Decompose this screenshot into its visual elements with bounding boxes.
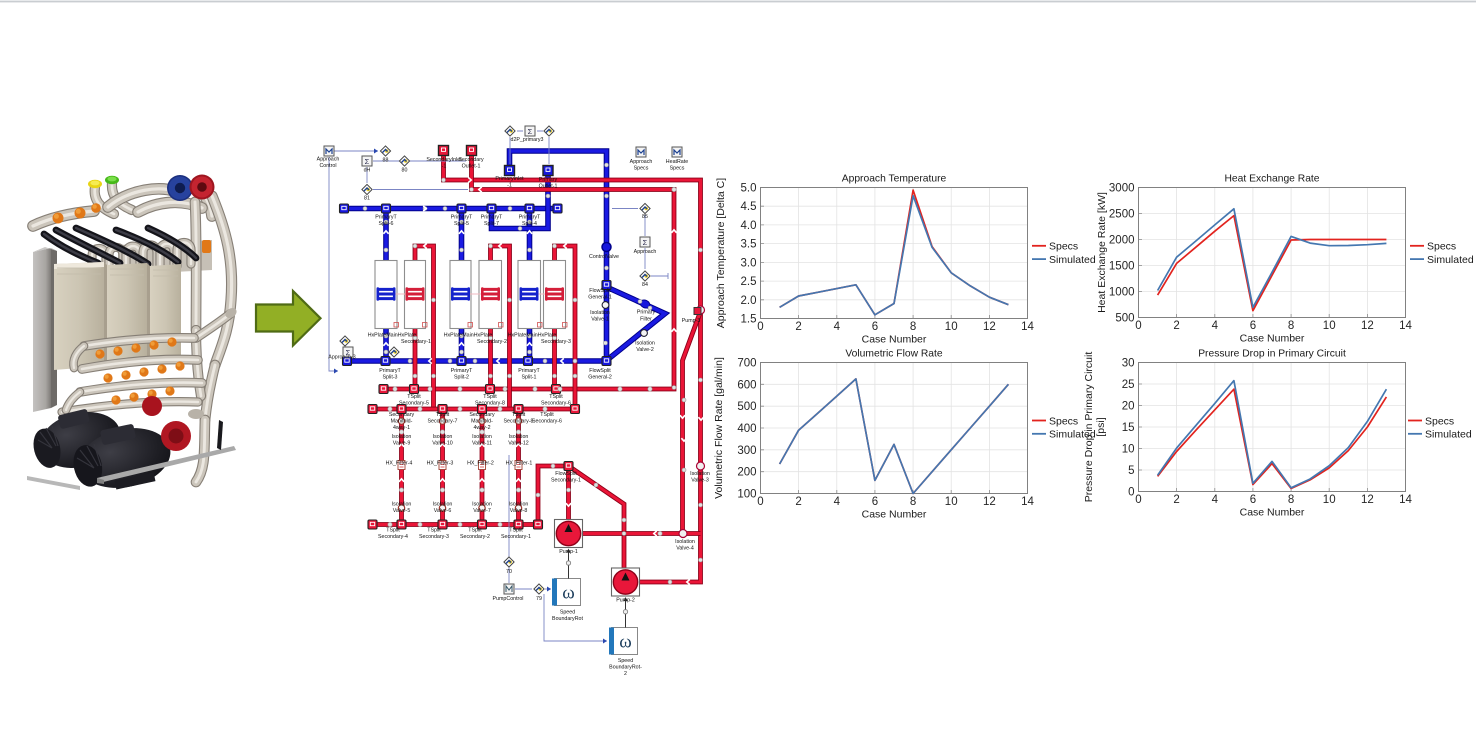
svg-text:0: 0 [1135, 494, 1141, 506]
svg-text:4way-1: 4way-1 [393, 425, 410, 431]
svg-text:Secondary-3: Secondary-3 [419, 534, 449, 540]
svg-text:Heat Exchange Rate: Heat Exchange Rate [1224, 174, 1319, 185]
svg-text:Secondary-7: Secondary-7 [427, 419, 457, 425]
svg-text:Secondary-6: Secondary-6 [541, 401, 571, 407]
svg-text:Secondary-1: Secondary-1 [501, 534, 531, 540]
svg-text:Isolation: Isolation [590, 310, 610, 316]
svg-text:4way-2: 4way-2 [473, 425, 490, 431]
svg-text:Isolation: Isolation [472, 502, 492, 508]
svg-text:88: 88 [383, 158, 389, 164]
svg-text:10: 10 [945, 321, 958, 333]
svg-text:Secondary-6: Secondary-6 [532, 419, 562, 425]
svg-text:HX_Filter-2: HX_Filter-2 [467, 461, 494, 467]
svg-text:Volumetric Flow Rate: Volumetric Flow Rate [845, 349, 943, 360]
svg-text:5.0: 5.0 [741, 183, 757, 195]
svg-text:Secondary: Secondary [458, 157, 484, 163]
svg-text:Specs: Specs [670, 166, 685, 172]
svg-text:Valve-11: Valve-11 [472, 441, 492, 447]
svg-text:Pressure Drop in Primary Circu: Pressure Drop in Primary Circuit [1083, 352, 1095, 503]
svg-text:1.5: 1.5 [741, 314, 757, 326]
svg-text:Speed: Speed [560, 610, 575, 616]
svg-text:85: 85 [642, 214, 648, 220]
svg-text:BoundaryRot: BoundaryRot [552, 616, 583, 622]
svg-text:Heat Exchange Rate [kW]: Heat Exchange Rate [kW] [1096, 192, 1108, 313]
svg-text:FlowSplit: FlowSplit [589, 288, 611, 294]
svg-text:4.0: 4.0 [741, 220, 757, 232]
svg-text:Split-2: Split-2 [454, 375, 469, 381]
svg-text:2: 2 [795, 321, 801, 333]
svg-text:TSplit: TSplit [549, 394, 563, 400]
svg-text:4: 4 [834, 321, 841, 333]
svg-text:4.5: 4.5 [741, 201, 757, 213]
svg-text:80: 80 [402, 168, 408, 174]
svg-text:TSplit: TSplit [436, 412, 450, 418]
svg-text:-1: -1 [507, 183, 512, 189]
svg-text:Valve-8: Valve-8 [510, 508, 528, 514]
svg-text:300: 300 [737, 445, 756, 457]
svg-text:PrimaryT: PrimaryT [451, 215, 473, 221]
svg-text:PumpControl: PumpControl [493, 596, 524, 602]
svg-text:HX_Filter-1: HX_Filter-1 [506, 461, 533, 467]
svg-text:2.0: 2.0 [741, 295, 757, 307]
svg-text:20: 20 [1122, 401, 1135, 413]
svg-text:3000: 3000 [1109, 183, 1135, 195]
svg-text:Valve-9: Valve-9 [393, 441, 411, 447]
svg-text:Σ: Σ [528, 127, 533, 136]
svg-text:Isolation: Isolation [472, 434, 492, 440]
svg-text:Specs: Specs [1049, 241, 1078, 253]
svg-text:10: 10 [1323, 320, 1336, 332]
svg-text:1500: 1500 [1109, 261, 1135, 273]
svg-text:1000: 1000 [1109, 287, 1135, 299]
svg-text:Isolation: Isolation [635, 341, 655, 347]
svg-text:Secondary-1: Secondary-1 [551, 478, 581, 484]
svg-text:HxPlateMainHxPlate: HxPlateMainHxPlate [368, 333, 417, 339]
svg-text:Secondary-2: Secondary-2 [477, 339, 507, 345]
svg-text:Isolation: Isolation [690, 471, 710, 477]
svg-text:Split-3: Split-3 [382, 375, 397, 381]
svg-text:TSplit: TSplit [509, 528, 523, 534]
svg-text:Valve-4: Valve-4 [676, 546, 694, 552]
svg-text:Secondary-3: Secondary-3 [541, 339, 571, 345]
svg-text:Approach Temperature: Approach Temperature [842, 174, 947, 185]
svg-text:8: 8 [1288, 320, 1294, 332]
svg-text:Pump-3: Pump-3 [682, 318, 701, 324]
svg-text:FlowSplit: FlowSplit [589, 368, 611, 374]
svg-text:Secondary: Secondary [469, 412, 495, 418]
svg-text:Specs: Specs [1427, 241, 1456, 253]
svg-text:Σ: Σ [643, 238, 648, 247]
svg-text:2: 2 [795, 496, 801, 508]
svg-text:2: 2 [1173, 494, 1179, 506]
svg-text:Valve-5: Valve-5 [393, 508, 411, 514]
svg-text:TSplit: TSplit [483, 394, 497, 400]
svg-text:15: 15 [1122, 422, 1135, 434]
svg-text:PrimaryT: PrimaryT [375, 215, 397, 221]
svg-text:2.5: 2.5 [741, 276, 757, 288]
svg-text:0: 0 [1135, 320, 1141, 332]
svg-text:Simulated: Simulated [1425, 429, 1472, 441]
svg-text:0: 0 [757, 321, 763, 333]
svg-text:500: 500 [737, 401, 756, 413]
svg-text:79: 79 [536, 596, 542, 602]
svg-text:Valve-2: Valve-2 [636, 347, 654, 353]
svg-text:Primary: Primary [539, 177, 558, 183]
svg-text:500: 500 [1115, 313, 1134, 325]
svg-text:2: 2 [624, 671, 627, 677]
svg-text:[psi]: [psi] [1095, 417, 1107, 436]
svg-text:5: 5 [1128, 465, 1134, 477]
svg-text:PrimaryT: PrimaryT [451, 368, 473, 374]
svg-text:Isolation: Isolation [509, 434, 529, 440]
svg-text:84: 84 [642, 282, 648, 288]
svg-text:Isolation: Isolation [392, 434, 412, 440]
svg-text:4: 4 [1212, 494, 1219, 506]
svg-text:Valve-1: Valve-1 [591, 317, 609, 323]
svg-text:2000: 2000 [1109, 235, 1135, 247]
svg-text:0: 0 [1128, 487, 1134, 499]
svg-text:2500: 2500 [1109, 209, 1135, 221]
svg-text:Simulated: Simulated [1427, 254, 1474, 266]
svg-text:14: 14 [1021, 321, 1034, 333]
svg-text:400: 400 [737, 423, 756, 435]
svg-text:Approach: Approach [630, 159, 653, 165]
svg-text:6: 6 [872, 496, 878, 508]
svg-text:Case Number: Case Number [1240, 507, 1305, 519]
svg-text:Filter: Filter [640, 317, 652, 323]
svg-text:Secondary: Secondary [389, 412, 415, 418]
svg-text:TSplit: TSplit [540, 412, 554, 418]
svg-text:12: 12 [1361, 494, 1374, 506]
svg-text:PrimaryT: PrimaryT [519, 215, 541, 221]
svg-text:25: 25 [1122, 379, 1135, 391]
svg-text:700: 700 [737, 358, 756, 370]
svg-text:PrimaryT: PrimaryT [481, 215, 503, 221]
svg-text:8: 8 [910, 321, 916, 333]
svg-text:8: 8 [1288, 494, 1294, 506]
svg-text:BoundaryRot-: BoundaryRot- [609, 665, 642, 671]
svg-text:Secondary-5: Secondary-5 [399, 401, 429, 407]
svg-text:HxPlateMainHxPlate: HxPlateMainHxPlate [508, 333, 557, 339]
svg-text:600: 600 [737, 379, 756, 391]
svg-text:HX_Filter-4: HX_Filter-4 [386, 461, 413, 467]
svg-text:Secondary-4: Secondary-4 [378, 534, 408, 540]
svg-text:14: 14 [1399, 320, 1412, 332]
svg-text:Split-1: Split-1 [521, 375, 536, 381]
svg-text:Outlet-1: Outlet-1 [539, 184, 558, 190]
svg-text:6: 6 [1250, 494, 1256, 506]
svg-text:HX_Filter-3: HX_Filter-3 [427, 461, 454, 467]
svg-text:Split-4: Split-4 [522, 221, 537, 227]
svg-text:Control: Control [319, 163, 336, 169]
svg-text:dH: dH [364, 168, 371, 174]
svg-text:Secondary-8: Secondary-8 [503, 419, 533, 425]
svg-text:TSplit: TSplit [386, 528, 400, 534]
svg-text:ω: ω [562, 583, 575, 604]
svg-text:4: 4 [1212, 320, 1219, 332]
svg-text:Manifold-: Manifold- [471, 419, 493, 425]
svg-text:Valve-3: Valve-3 [691, 478, 709, 484]
svg-text:Split-7: Split-7 [484, 221, 499, 227]
svg-text:70: 70 [506, 569, 512, 575]
svg-text:12: 12 [983, 496, 996, 508]
svg-text:HeatRate: HeatRate [666, 159, 688, 165]
svg-text:Pressure Drop in Primary Circu: Pressure Drop in Primary Circuit [1198, 349, 1346, 360]
svg-text:Valve-6: Valve-6 [434, 508, 452, 514]
svg-text:14: 14 [1399, 494, 1412, 506]
svg-text:Isolation: Isolation [433, 434, 453, 440]
svg-text:TSplit: TSplit [512, 412, 526, 418]
svg-text:Pump-2: Pump-2 [616, 598, 635, 604]
svg-text:FlowSplit: FlowSplit [555, 471, 577, 477]
svg-text:Specs: Specs [1425, 415, 1454, 427]
svg-text:Outlet-1: Outlet-1 [462, 164, 481, 170]
svg-text:Isolation: Isolation [675, 539, 695, 545]
svg-text:Simulated: Simulated [1049, 254, 1096, 266]
svg-text:Secondary-1: Secondary-1 [401, 339, 431, 345]
svg-text:Case Number: Case Number [1240, 333, 1305, 345]
svg-text:12: 12 [983, 321, 996, 333]
svg-text:Speed: Speed [618, 658, 633, 664]
svg-text:Σ: Σ [365, 157, 370, 166]
svg-text:Volumetric Flow Rate [gal/min]: Volumetric Flow Rate [gal/min] [713, 357, 725, 499]
svg-text:Split-6: Split-6 [378, 221, 393, 227]
svg-text:ControlValve: ControlValve [589, 254, 619, 260]
svg-text:Isolation: Isolation [509, 502, 529, 508]
svg-text:Valve-7: Valve-7 [473, 508, 491, 514]
svg-text:8: 8 [910, 496, 916, 508]
svg-text:TSplit: TSplit [427, 528, 441, 534]
svg-text:Approach: Approach [634, 249, 657, 255]
svg-text:Isolation: Isolation [433, 502, 453, 508]
svg-text:General-1: General-1 [588, 295, 612, 301]
svg-text:3.0: 3.0 [741, 257, 757, 269]
svg-text:2: 2 [1173, 320, 1179, 332]
svg-text:3.5: 3.5 [741, 239, 757, 251]
svg-text:Valve-12: Valve-12 [508, 441, 529, 447]
svg-text:TSplit: TSplit [468, 528, 482, 534]
svg-text:Approach: Approach [317, 157, 340, 163]
svg-text:4: 4 [834, 496, 841, 508]
svg-text:PrimaryT: PrimaryT [518, 368, 540, 374]
svg-text:10: 10 [945, 496, 958, 508]
svg-text:Specs: Specs [1049, 415, 1078, 427]
svg-text:Approach Temperature [Delta C]: Approach Temperature [Delta C] [715, 178, 727, 328]
svg-text:81: 81 [364, 196, 370, 202]
svg-text:Valve-10: Valve-10 [432, 441, 453, 447]
svg-text:Split-5: Split-5 [454, 221, 469, 227]
svg-text:12: 12 [1361, 320, 1374, 332]
svg-text:SecondaryInlet: SecondaryInlet [426, 157, 462, 163]
svg-text:0: 0 [757, 496, 763, 508]
svg-text:HxPlateMainHxPlate: HxPlateMainHxPlate [444, 333, 493, 339]
svg-text:10: 10 [1122, 444, 1135, 456]
svg-text:Secondary-8: Secondary-8 [475, 401, 505, 407]
svg-text:PrimaryInlet: PrimaryInlet [495, 176, 524, 182]
svg-text:PrimaryT: PrimaryT [379, 368, 401, 374]
svg-text:Primary: Primary [637, 310, 656, 316]
svg-text:Isolation: Isolation [392, 502, 412, 508]
svg-text:Case Number: Case Number [862, 334, 927, 346]
svg-text:ω: ω [619, 632, 632, 653]
svg-text:30: 30 [1122, 358, 1135, 370]
svg-text:6: 6 [1250, 320, 1256, 332]
svg-text:-1: -1 [442, 164, 447, 170]
svg-text:10: 10 [1323, 494, 1336, 506]
svg-text:Case Number: Case Number [862, 509, 927, 521]
svg-text:Approach-3: Approach-3 [328, 355, 355, 361]
svg-text:Manifold-: Manifold- [391, 419, 413, 425]
svg-text:Secondary-2: Secondary-2 [460, 534, 490, 540]
svg-text:200: 200 [737, 467, 756, 479]
svg-text:100: 100 [737, 489, 756, 501]
svg-text:General-2: General-2 [588, 375, 612, 381]
svg-text:d2P_primary3: d2P_primary3 [511, 137, 544, 143]
svg-text:TSplit: TSplit [407, 394, 421, 400]
svg-text:6: 6 [872, 321, 878, 333]
svg-text:Pump-1: Pump-1 [559, 549, 578, 555]
svg-text:Specs: Specs [634, 166, 649, 172]
svg-text:14: 14 [1021, 496, 1034, 508]
